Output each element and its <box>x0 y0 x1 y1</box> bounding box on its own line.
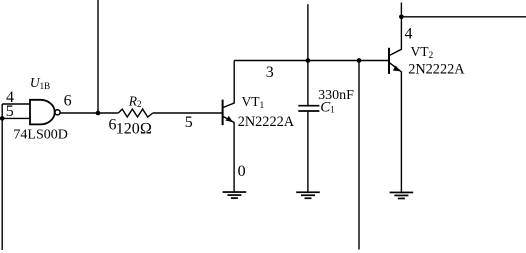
svg-text:6: 6 <box>64 93 72 110</box>
transistor VT1 collector lead <box>223 61 235 108</box>
junction dot node 4 <box>399 14 404 19</box>
resistor R2 zigzag <box>118 109 153 117</box>
svg-text:VT2: VT2 <box>411 44 434 61</box>
transistor VT1 emitter lead <box>223 116 234 192</box>
wire NAND input pin 5 <box>2 117 30 119</box>
wire node 4 horizontal to right edge <box>401 16 526 18</box>
wire NAND output to resistor <box>60 112 118 114</box>
NAND gate U1B body (74LS00D) <box>30 100 55 125</box>
svg-text:R2: R2 <box>128 93 142 109</box>
transistor VT2 collector lead <box>389 3 401 56</box>
transistor VT1 emitter arrowhead <box>226 116 233 122</box>
wire C1 bottom lead to ground <box>307 112 309 192</box>
svg-text:2N2222A: 2N2222A <box>408 62 465 78</box>
wire vertical drop from top edge to NAND output net <box>97 0 99 113</box>
ground symbol at VT2 emitter <box>390 192 414 200</box>
wire node 3: VT1 collector to C1 junction <box>234 60 308 62</box>
svg-text:120Ω: 120Ω <box>116 120 152 137</box>
transistor VT2 emitter lead <box>389 63 401 192</box>
svg-text:U1B: U1B <box>30 75 50 91</box>
svg-text:5: 5 <box>6 103 14 120</box>
svg-text:3: 3 <box>266 64 274 81</box>
wire resistor to VT1 base <box>153 112 222 114</box>
wire right vertical drop from node 3 <box>358 61 360 250</box>
wire node 3: right junction to VT2 base <box>359 60 388 62</box>
junction dot NAND output node <box>96 111 101 116</box>
svg-text:2N2222A: 2N2222A <box>238 114 295 130</box>
junction dot NAND inputs tie <box>0 116 5 121</box>
junction dot node 3 at C1 <box>306 58 311 63</box>
ground symbol at C1 <box>296 191 320 199</box>
wire NAND input pin 4 <box>2 103 30 105</box>
capacitor C1 top plate <box>298 105 319 107</box>
svg-text:5: 5 <box>185 114 193 131</box>
svg-text:0: 0 <box>238 163 246 180</box>
transistor VT2 emitter arrowhead <box>393 66 400 72</box>
junction dot node 3 right <box>357 58 362 63</box>
capacitor C1 bottom plate <box>298 110 319 112</box>
wire node 3: C1 junction to right junction <box>308 60 359 62</box>
U1B output inversion bubble <box>55 110 60 115</box>
svg-text:74LS00D: 74LS00D <box>13 128 67 143</box>
svg-text:VT1: VT1 <box>242 94 265 111</box>
ground symbol at VT1 emitter <box>223 191 247 199</box>
wire vertical stub above C1 junction <box>307 4 309 60</box>
svg-text:4: 4 <box>405 26 413 43</box>
transistor VT1 base bar <box>222 100 224 126</box>
transistor VT2 base bar <box>388 48 390 74</box>
wire left input bus vertical <box>1 104 3 250</box>
wire C1 top lead <box>307 61 309 106</box>
